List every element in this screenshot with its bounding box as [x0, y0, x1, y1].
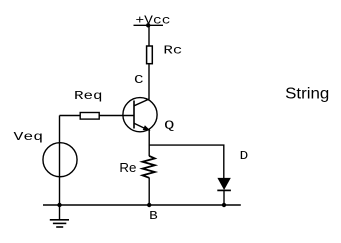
svg-text:Q: Q — [164, 118, 174, 132]
svg-text:Req: Req — [74, 89, 103, 103]
svg-text:Veq: Veq — [14, 130, 44, 144]
svg-text:String: String — [285, 85, 329, 102]
svg-text:D: D — [240, 149, 249, 163]
svg-text:Rc: Rc — [163, 44, 182, 58]
svg-text:Re: Re — [119, 160, 136, 175]
svg-text:+Vcc: +Vcc — [135, 14, 170, 28]
svg-text:C: C — [134, 73, 144, 87]
svg-text:B: B — [149, 209, 158, 223]
